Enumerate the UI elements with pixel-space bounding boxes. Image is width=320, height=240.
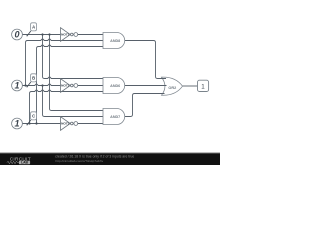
wire C to AND6 pin3 bbox=[32, 90, 104, 91]
node B wire x25.5 bbox=[24, 84, 26, 86]
node C wire x29.5 bbox=[28, 122, 30, 124]
wire AND6 out to OR2 middle input bbox=[125, 85, 167, 87]
wire AND8 out to OR2 top input bbox=[125, 41, 166, 79]
svg-text:AND8: AND8 bbox=[110, 39, 120, 43]
wire B to AND7 pin2 bbox=[45, 116, 104, 118]
and gate AND8 bbox=[103, 33, 125, 49]
svg-text:A: A bbox=[32, 24, 35, 29]
wire C row bbox=[22, 123, 60, 125]
wire B row bbox=[22, 84, 60, 85]
input source B value 1 bbox=[12, 74, 37, 91]
wire C riser x36.5 bbox=[37, 47, 39, 124]
svg-text:C: C bbox=[32, 113, 35, 118]
svg-text:AND6: AND6 bbox=[110, 84, 120, 88]
svg-text:B: B bbox=[32, 75, 35, 80]
or gate OR2 bbox=[160, 77, 183, 95]
inverter NOT1 bbox=[61, 28, 78, 42]
wire A dropper x49.5 bbox=[50, 35, 52, 111]
wire NOT1 out to AND8 pin1 bbox=[78, 34, 103, 36]
wire A dropper x42.5 bbox=[43, 35, 45, 79]
inverter NOT2 bbox=[61, 79, 78, 93]
svg-text:1: 1 bbox=[14, 81, 19, 91]
wire B to AND8 pin2 bbox=[28, 39, 104, 40]
svg-text:1: 1 bbox=[201, 83, 205, 90]
svg-text:OR2: OR2 bbox=[168, 86, 176, 90]
wire B riser x25.5 bbox=[26, 41, 28, 86]
wire NOT3 out to AND7 pin3 bbox=[78, 123, 103, 125]
inverter NOT3 bbox=[61, 117, 78, 131]
svg-text:http://circuitlab.com/c/7tkvkp: http://circuitlab.com/c/7tkvkp7wkhv bbox=[56, 159, 104, 163]
watermark bar bbox=[0, 153, 220, 165]
wire C riser x29.5 bbox=[30, 92, 32, 124]
svg-text:1: 1 bbox=[14, 119, 19, 129]
node A wire x49.5 bbox=[48, 33, 50, 35]
wire B dropper x42.5 bbox=[43, 86, 45, 117]
node B wire x42.5 bbox=[41, 84, 43, 86]
svg-text:NOT1: NOT1 bbox=[61, 33, 70, 37]
wire A row bbox=[22, 34, 60, 36]
output box value 1 bbox=[198, 80, 209, 91]
node A wire x42.5 bbox=[41, 33, 43, 35]
svg-text:NOT2: NOT2 bbox=[61, 84, 70, 88]
wire OR2 out to output box bbox=[183, 85, 198, 87]
and gate AND7 bbox=[103, 109, 125, 125]
input source A value 0 bbox=[12, 23, 37, 40]
wire A to AND6 pin1 bbox=[45, 77, 104, 78]
input source C value 1 bbox=[12, 112, 37, 129]
svg-text:0: 0 bbox=[14, 30, 19, 40]
wire NOT2 out to AND6 pin2 bbox=[78, 85, 103, 87]
svg-text:AND7: AND7 bbox=[110, 115, 120, 119]
node C wire x36.5 bbox=[35, 122, 37, 124]
and gate AND6 bbox=[103, 78, 125, 94]
wire A to AND7 pin1 bbox=[52, 110, 104, 112]
wire AND7 out to OR2 bottom input bbox=[125, 94, 165, 117]
svg-text:NOT3: NOT3 bbox=[61, 122, 70, 126]
wire C to AND8 pin3 bbox=[39, 45, 104, 46]
svg-text:LAB: LAB bbox=[21, 161, 29, 165]
